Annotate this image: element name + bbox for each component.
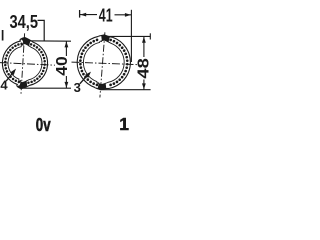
leader arrow for wall thickness 4	[6, 74, 12, 82]
dimension 41 dimension line with outward ticks and arrows	[79, 10, 81, 18]
svg-text:40: 40	[54, 56, 71, 76]
dimension 40 extension lines	[22, 41, 72, 88]
dimension 41 right extension line down to profile	[130, 10, 132, 62]
svg-text:48: 48	[136, 58, 152, 79]
right tube profile (1) centerlines	[72, 32, 138, 97]
left tube profile 0v: lemon ring wall with stipple dots	[1, 36, 50, 90]
svg-text:3: 3	[74, 80, 81, 95]
svg-text:41: 41	[99, 5, 113, 26]
dimension 34,5 left extension tick	[2, 30, 4, 41]
svg-text:34,5: 34,5	[10, 11, 39, 32]
dimension 40 dimension line with arrows	[65, 41, 67, 88]
dimension 48 dimension line with arrows	[143, 37, 145, 90]
svg-text:0v: 0v	[36, 114, 51, 135]
dimension 34,5 right hook extension line	[38, 20, 45, 41]
dimension 48 extension lines	[101, 33, 151, 89]
left tube profile (0v) centerlines	[0, 33, 55, 95]
leader arrow for wall thickness 3	[80, 76, 87, 84]
right tube profile 1: lemon ring wall with stipple dots	[75, 33, 132, 92]
svg-text:1: 1	[119, 114, 129, 134]
